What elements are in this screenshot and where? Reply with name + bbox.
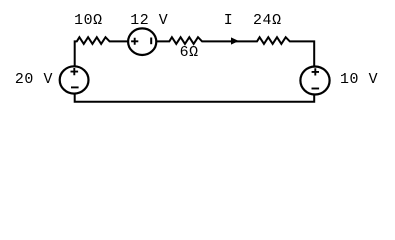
voltage source V3 10V (ellipse body) (300, 67, 329, 95)
svg-text:I: I (224, 13, 234, 29)
svg-text:6Ω: 6Ω (180, 45, 199, 61)
svg-text:10Ω: 10Ω (74, 13, 103, 29)
V2 minus bar (150, 38, 152, 45)
wire: top-left vertical from 20V source up to corner, plus resistor R1 body and lead to 12V source (75, 37, 129, 65)
V3 minus sign (312, 88, 320, 90)
svg-text:10 V: 10 V (340, 72, 378, 88)
V1 minus sign (71, 86, 79, 88)
wire: V2 right lead, resistor R2 6Ω body, wire to arrow, resistor R3 24Ω body, top-right corner down to 10V source (156, 37, 314, 66)
svg-text:20 V: 20 V (15, 72, 53, 88)
voltage source V2 12V (ellipse body) (128, 28, 156, 55)
voltage source V1 20V (ellipse body) (60, 66, 89, 93)
wire: bottom rail from 10V source bottom, across, up to 20V source bottom (75, 94, 315, 102)
current arrow I (solid triangle on wire) (231, 37, 239, 44)
V3 plus sign (312, 68, 319, 75)
V2 plus sign (131, 38, 138, 45)
V1 plus sign (71, 68, 79, 75)
svg-text:24Ω: 24Ω (253, 13, 282, 29)
svg-text:12 V: 12 V (130, 13, 168, 29)
